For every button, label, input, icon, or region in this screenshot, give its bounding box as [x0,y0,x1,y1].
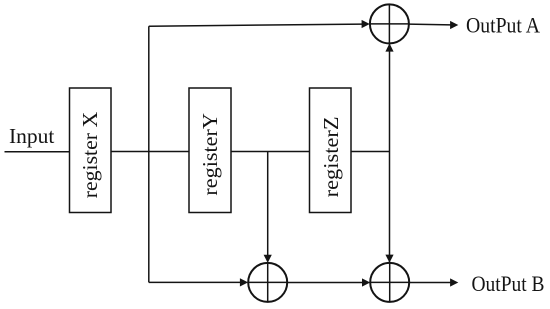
svg-text:OutPut A: OutPut A [466,13,541,38]
svg-text:register X: register X [78,111,102,198]
wire: middle branch from Y-Z net down into adder A2 with arrowhead [264,152,272,263]
wire: bottom horizontal from branch to adder A2 with arrowhead [149,278,248,286]
wire: right vertical from adder A1 down to adder A3, arrow up into A1 and arrow down into A3 [385,43,393,262]
xor adder A3 (bottom right) [370,263,409,302]
register X [70,88,112,213]
wire: adder A2 output to adder A3 with arrowhead [287,278,370,286]
xor adder A1 (top) [370,4,409,43]
svg-text:registerY: registerY [198,113,222,196]
svg-text:registerZ: registerZ [319,116,343,197]
label: Input net [9,124,54,148]
wire: adder A1 output to OutPut A with arrowhead [409,21,458,29]
register Y [189,88,231,213]
register Z [310,88,352,213]
wire: top horizontal to adder A1 with arrowhead [149,20,370,28]
xor adder A2 (bottom middle) [248,263,287,302]
wire: adder A3 output to OutPut B with arrowhead [409,278,458,286]
svg-text:Input: Input [9,124,54,148]
label: OutPut B net [472,271,545,296]
wire: feedforward branch vertical at x=149 (top tap to bottom tap) [148,26,150,282]
wire: register X to register Y [111,151,189,153]
svg-text:OutPut B: OutPut B [472,271,545,296]
wire: register Y to register Z [231,151,310,153]
wire: input segment into register X [5,151,70,153]
label: OutPut A net [466,13,541,38]
wire: register Z to right vertical junction [351,151,390,153]
